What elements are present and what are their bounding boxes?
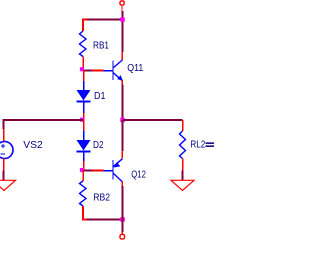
resistor RL (180, 120, 186, 171)
resistor RB1 (80, 20, 88, 71)
diode D1 (77, 70, 104, 120)
source VS2 (0, 129, 13, 171)
ground VS2 (0, 180, 16, 190)
value bars RL (206, 142, 215, 147)
wire Q12 emitter (121, 120, 123, 151)
junction D2/RB2 (80, 168, 84, 172)
ground RL (171, 180, 194, 190)
wire base Q11 (83, 70, 93, 72)
diode D2 (77, 120, 91, 170)
wire top rail (86, 19, 123, 21)
svg-text:RL2: RL2 (190, 140, 205, 151)
svg-text:D2: D2 (93, 140, 104, 151)
wire VS2 to diodes (4, 120, 84, 129)
junction D1/D2 (80, 118, 84, 122)
terminal top (120, 1, 124, 11)
junction top (120, 17, 125, 22)
resistor RB2 (80, 170, 104, 220)
svg-text:VS2: VS2 (23, 140, 43, 151)
junction RB1/D1 (80, 67, 84, 71)
transistor Q11 (104, 52, 123, 85)
svg-text:D1: D1 (94, 91, 106, 102)
wire emitters vertical (121, 85, 123, 121)
wire output to RL (122, 119, 182, 121)
svg-text:Q12: Q12 (131, 169, 146, 180)
wire top vertical (121, 11, 123, 52)
svg-text:RB1: RB1 (93, 41, 109, 52)
wire bottom rail (87, 219, 123, 221)
wire base Q12 (83, 170, 93, 172)
svg-text:RB2: RB2 (93, 192, 110, 203)
junction bottom (120, 217, 125, 222)
wire VS2 to ground (3, 171, 5, 181)
transistor Q12 (104, 151, 123, 186)
wire RL to ground (182, 171, 184, 181)
junction output (120, 118, 125, 123)
terminal bottom (120, 232, 125, 239)
svg-text:Q11: Q11 (127, 63, 143, 74)
wire bottom vertical (121, 186, 123, 232)
